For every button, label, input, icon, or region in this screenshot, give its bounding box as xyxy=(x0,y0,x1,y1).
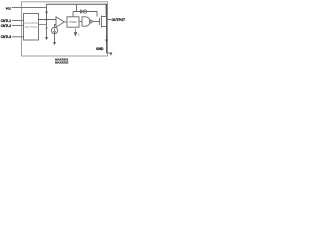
wire CNTL2 to threshold box xyxy=(12,25,24,27)
wire CNTL1 to threshold box xyxy=(12,20,24,22)
gate G1 body xyxy=(82,17,90,26)
top supply rail xyxy=(47,3,107,5)
diode D1 on pull-up wire xyxy=(81,10,84,13)
wire CNTL3 to threshold box xyxy=(12,36,24,38)
transistor Q1 source connection xyxy=(102,26,107,28)
svg-text:MAX6502: MAX6502 xyxy=(55,61,69,65)
output node vertical wire xyxy=(106,4,108,53)
current source I1 circle xyxy=(51,27,57,33)
svg-text:CNTL2: CNTL2 xyxy=(1,24,11,28)
svg-text:SETTING: SETTING xyxy=(24,25,38,29)
current arrow on output vertical xyxy=(105,40,108,43)
transistor Q1 gate bar xyxy=(99,18,101,25)
wire current source to comparator - input xyxy=(55,25,57,28)
svg-text:GND: GND xyxy=(96,47,104,51)
node A vertical bias line xyxy=(46,4,48,39)
GND exit arrowhead xyxy=(110,53,113,56)
wire VCC pin to node A xyxy=(12,7,47,9)
pull-up wire xyxy=(73,12,97,17)
svg-text:PWM: PWM xyxy=(69,20,77,24)
wire gate to transistor gate xyxy=(92,21,99,23)
junction dot node A xyxy=(46,19,48,21)
wire OUTPUT pin xyxy=(107,19,112,21)
wire current source bottom stub xyxy=(54,34,56,42)
diode bubble xyxy=(83,10,86,13)
wire logic box top stub xyxy=(72,12,74,17)
arrowhead end of bias line xyxy=(45,37,48,40)
current source internal arrow xyxy=(53,28,55,33)
current arrow down on bias line xyxy=(45,12,48,15)
transistor Q1 channel bar xyxy=(101,16,103,28)
IC outer boundary box xyxy=(22,2,108,56)
arrowhead below current source xyxy=(53,42,56,45)
comparator A1 xyxy=(56,17,64,27)
wire comparator output to logic box xyxy=(64,21,67,23)
pull-up branch from rail xyxy=(76,4,78,11)
threshold setting box U1 xyxy=(24,14,39,41)
gate G1 output bubble xyxy=(89,20,92,23)
current arrow mid bias line xyxy=(45,27,47,30)
svg-text:CNTL3: CNTL3 xyxy=(1,35,11,39)
svg-text:OUTPUT: OUTPUT xyxy=(112,18,126,22)
wire to GND exit xyxy=(107,52,112,54)
output node vertical wire upper thick segment xyxy=(105,4,107,16)
wire logic box to gate xyxy=(79,21,82,23)
svg-text:CNTL1: CNTL1 xyxy=(1,19,11,23)
wire threshold box to comparator + input xyxy=(39,19,57,21)
discharge arrow below logic box xyxy=(74,29,77,36)
transistor Q1 drain connection xyxy=(102,16,107,18)
logic box U2 xyxy=(67,17,79,27)
wire threshold box lower tap xyxy=(39,24,47,26)
